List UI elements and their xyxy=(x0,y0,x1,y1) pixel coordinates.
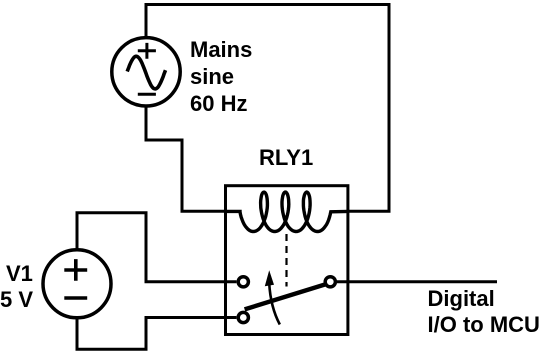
actuation arrow curve xyxy=(269,283,280,325)
label V1 xyxy=(6,260,33,287)
V1 source circle xyxy=(43,250,111,318)
AC plus sign xyxy=(138,43,156,59)
switch blade xyxy=(245,284,326,309)
V1 plus sign xyxy=(64,259,87,281)
contact pin left bottom (NC) xyxy=(238,312,248,322)
label Digital I/O to MCU xyxy=(428,286,540,338)
arrowhead xyxy=(265,270,274,286)
label 5 V xyxy=(0,286,33,313)
V1 minus sign xyxy=(64,296,87,300)
relay coil L xyxy=(226,192,349,231)
wire AC top loop xyxy=(146,5,389,212)
dashed actuation line xyxy=(285,234,287,287)
contact pin left top (common) xyxy=(238,277,248,287)
contact pin right (NO) xyxy=(325,277,335,287)
AC sine symbol xyxy=(127,56,165,89)
wire relay NO contact to MCU xyxy=(337,280,497,283)
label Mains sine 60 Hz xyxy=(190,36,252,117)
AC source circle xyxy=(112,38,180,106)
wire V1 minus to relay NC contact xyxy=(77,318,236,350)
label RLY1 xyxy=(259,144,313,171)
wire V1 plus to relay common contact xyxy=(77,213,236,282)
AC minus sign xyxy=(138,93,156,96)
wire AC bottom to coil xyxy=(146,106,226,211)
relay RLY1 box xyxy=(226,186,348,335)
